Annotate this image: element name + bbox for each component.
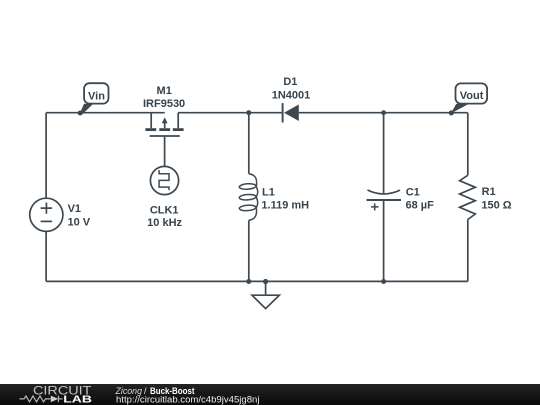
junction dot L1 top [246, 110, 251, 115]
voltage source V1 [30, 198, 63, 231]
capacitor C1 [367, 190, 402, 211]
junction dot C1 top [381, 110, 386, 115]
wire bottom rail [46, 280, 468, 282]
svg-text:CLK1: CLK1 [150, 204, 179, 216]
wire C1 bottom [383, 200, 385, 281]
svg-text:D1: D1 [283, 76, 297, 88]
footer bar [0, 384, 540, 405]
svg-text:R1: R1 [482, 186, 496, 198]
svg-text:1.119 mH: 1.119 mH [261, 200, 309, 212]
clock source CLK1 [150, 166, 178, 194]
svg-text:10 V: 10 V [68, 217, 91, 229]
wire top rail right segment [299, 112, 468, 114]
ground [252, 295, 279, 308]
svg-text:IRF9530: IRF9530 [143, 98, 185, 110]
transistor M1 [145, 113, 183, 136]
wire gate to clock [164, 137, 166, 167]
resistor R1 [460, 175, 476, 219]
svg-text:LAB: LAB [63, 394, 92, 405]
wire C1 top [383, 113, 385, 194]
node Vin flag [79, 83, 108, 115]
wire right vertical lower [467, 220, 469, 282]
wire right vertical upper [467, 113, 469, 176]
junction dot Vout [449, 110, 454, 115]
svg-text:Vout: Vout [460, 90, 484, 102]
wire ground stub [265, 281, 267, 294]
svg-text:10 kHz: 10 kHz [147, 217, 182, 229]
svg-text:150 Ω: 150 Ω [481, 200, 511, 212]
wire L1 top [248, 113, 250, 174]
junction dot C1 bottom [381, 279, 386, 284]
svg-text:M1: M1 [157, 85, 172, 97]
logo zigzag wire and diode [20, 396, 63, 402]
junction dot ground [263, 279, 268, 284]
svg-text:68 µF: 68 µF [406, 200, 435, 212]
wire L1 bottom [248, 220, 250, 281]
diode D1 [283, 103, 299, 122]
wire left vertical lower [45, 231, 47, 281]
svg-text:V1: V1 [68, 203, 81, 215]
inductor L1 [239, 174, 258, 221]
svg-text:L1: L1 [262, 187, 275, 199]
wire top rail mid segment [178, 112, 282, 114]
svg-text:Vin: Vin [88, 90, 105, 102]
svg-text:C1: C1 [406, 186, 420, 198]
wire left vertical upper [45, 113, 47, 199]
svg-text:1N4001: 1N4001 [272, 89, 311, 101]
junction dot L1 bottom [246, 279, 251, 284]
node Vout flag [451, 83, 487, 113]
svg-text:http://circuitlab.com/c4b9jv45: http://circuitlab.com/c4b9jv45jg8nj [116, 395, 260, 405]
wire top rail left segment [46, 112, 165, 114]
junction dot Vin [78, 111, 83, 116]
